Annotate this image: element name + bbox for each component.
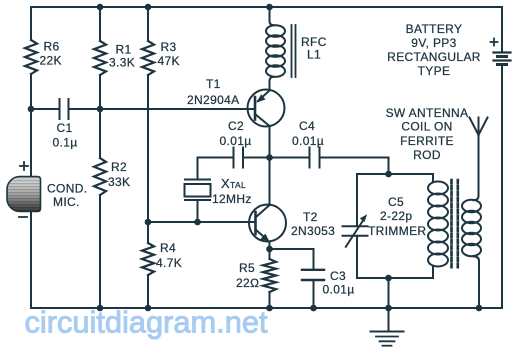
battery + sign: [491, 41, 498, 43]
svg-text:22Ω: 22Ω: [236, 276, 260, 290]
svg-text:TRIMMER: TRIMMER: [368, 224, 426, 238]
inductor L3 secondary coil: [462, 200, 481, 212]
wire R4 bottom lead: [147, 275, 149, 308]
wire tank right lower stub: [432, 266, 434, 278]
capacitor C4: [309, 148, 311, 168]
wire T2 collector up to C2/C4 node: [269, 158, 271, 206]
svg-text:FERRITE: FERRITE: [400, 134, 454, 148]
wire left rail R6 to mic: [30, 74, 32, 177]
svg-text:BATTERY: BATTERY: [406, 22, 463, 36]
svg-text:R6: R6: [44, 40, 60, 54]
wire C2 node down to crystal: [197, 158, 199, 180]
svg-text:C4: C4: [299, 119, 315, 133]
wire RFC bottom hook: [270, 77, 275, 90]
svg-text:12MHz: 12MHz: [212, 192, 252, 206]
wire mic node to C1: [31, 108, 59, 110]
svg-text:C3: C3: [330, 269, 346, 283]
wire left rail above R6: [30, 7, 32, 40]
junction node dots: [28, 4, 483, 312]
battery B1 plates: [494, 51, 511, 53]
wire crystal bottom lead: [197, 200, 199, 222]
crystal X1 top plate: [185, 179, 210, 181]
wire ground stem: [388, 308, 390, 331]
wire R1 bottom to C1 node and R2 top: [99, 75, 101, 158]
inductor RFC L1 coil: [266, 25, 285, 37]
wire R3 bottom to xtal-row node: [147, 75, 149, 243]
wire left rail mic to bottom: [30, 211, 32, 308]
transistor T2 emitter diagonal (NPN arrow out): [256, 230, 268, 240]
svg-text:22K: 22K: [40, 54, 62, 68]
wire secondary bottom to ground rail: [474, 256, 480, 308]
svg-text:4.7K: 4.7K: [156, 256, 182, 270]
svg-text:MIC.: MIC.: [53, 195, 80, 209]
svg-text:T2: T2: [303, 210, 318, 224]
wire C3 top lead: [313, 249, 315, 269]
wire R5 top lead: [269, 249, 271, 259]
wire RFC top lead: [270, 7, 275, 25]
resistor R5: [263, 259, 276, 292]
wire top supply rail: [31, 6, 502, 8]
svg-text:circuitdiagram.net: circuitdiagram.net: [25, 305, 268, 340]
ground symbol: [371, 331, 404, 333]
svg-text:COIL ON: COIL ON: [401, 120, 452, 134]
svg-text:R1: R1: [116, 43, 132, 57]
crystal X1 bottom plate: [185, 199, 210, 201]
wire R5 bottom lead: [269, 292, 271, 308]
svg-text:R3: R3: [161, 40, 177, 54]
inductor L2 primary coil: [428, 182, 448, 195]
resistor R4: [142, 243, 154, 275]
wire right rail upper (to battery +): [501, 7, 503, 51]
wire T1 collector down to C2/C4 node: [269, 126, 271, 158]
svg-text:C1: C1: [57, 121, 73, 135]
wire T2 base row: [148, 221, 256, 223]
antenna symbol: [470, 118, 479, 136]
wire T1 base wire: [100, 108, 254, 110]
svg-text:47K: 47K: [158, 54, 180, 68]
svg-text:0.01µ: 0.01µ: [323, 283, 355, 297]
svg-text:C2: C2: [228, 119, 244, 133]
wire R1 top lead: [99, 7, 101, 41]
wire tank left side lower: [356, 236, 358, 278]
capacitor C5 trimmer plates: [343, 225, 368, 227]
svg-text:R2: R2: [111, 160, 127, 174]
wire emitter node to C3: [270, 248, 314, 250]
wire C3 bottom lead: [313, 280, 315, 308]
wire C2 right lead to node: [243, 157, 270, 159]
resistor R2: [94, 158, 106, 195]
wire tank right upper stub: [432, 174, 434, 182]
capacitor C2: [233, 148, 235, 168]
svg-text:TYPE: TYPE: [418, 64, 451, 78]
svg-text:SW ANTENNA: SW ANTENNA: [386, 106, 469, 120]
wire tank top side: [357, 173, 433, 175]
transistor T1 base bar: [254, 97, 257, 120]
resistor R6: [25, 40, 37, 74]
svg-text:R5: R5: [239, 261, 255, 275]
svg-text:T1: T1: [206, 77, 221, 91]
wire tank left side upper: [356, 174, 358, 226]
inductor RFC L1 core bars: [291, 25, 293, 77]
wire T1 emitter to RFC: [269, 81, 271, 90]
svg-text:9V, PP3: 9V, PP3: [411, 36, 456, 50]
wire C1 to R1/R2 node: [69, 108, 101, 110]
svg-text:0.1µ: 0.1µ: [53, 136, 78, 150]
svg-text:R4: R4: [160, 241, 176, 255]
svg-text:C5: C5: [388, 195, 404, 209]
svg-text:0.01µ: 0.01µ: [220, 134, 252, 148]
svg-text:33K: 33K: [108, 175, 130, 189]
resistor R3: [142, 41, 154, 75]
wire C4 right lead to tank: [320, 158, 389, 175]
wire tank bottom node to ground rail: [388, 278, 390, 308]
crystal X1 body: [185, 184, 211, 197]
svg-text:0.01µ: 0.01µ: [292, 134, 324, 148]
svg-text:2-22p: 2-22p: [380, 209, 412, 223]
svg-text:COND.: COND.: [47, 182, 87, 196]
microphone MIC1 + sign: [20, 165, 28, 167]
capacitor C5 trimmer arrow: [346, 220, 363, 247]
wire R2 bottom lead: [99, 195, 101, 308]
svg-text:2N3053: 2N3053: [291, 224, 335, 238]
svg-text:2N2904A: 2N2904A: [187, 93, 240, 107]
svg-text:L1: L1: [307, 48, 321, 62]
transistor T1 emitter diagonal (PNP arrow to base): [258, 91, 270, 102]
svg-text:3.3K: 3.3K: [109, 56, 135, 70]
transistor T2 base bar: [254, 212, 257, 234]
microphone MIC1 - sign: [19, 216, 27, 218]
transistor T2 collector diagonal: [256, 205, 270, 218]
wire tank bottom side: [357, 277, 433, 279]
wire right rail lower (battery - to bottom rail): [501, 66, 503, 308]
transistor T1 collector diagonal: [255, 114, 270, 126]
transistor Q T1 circle: [248, 90, 285, 127]
wire bottom ground rail: [31, 307, 502, 309]
wire T2 emitter down to node: [269, 242, 271, 249]
resistor R1: [94, 41, 106, 75]
wire R3 top lead: [147, 7, 149, 41]
transistor T2 circle: [249, 205, 286, 242]
svg-text:ROD: ROD: [413, 148, 441, 162]
wire antenna stem to secondary top: [474, 135, 479, 200]
svg-text:RECTANGULAR: RECTANGULAR: [387, 50, 481, 64]
capacitor C1: [59, 99, 61, 119]
wire C4 left lead: [270, 157, 310, 159]
capacitor C3: [302, 269, 324, 271]
svg-text:XTAL: XTAL: [221, 176, 246, 191]
wire C2 left lead: [198, 157, 234, 159]
transformer core dashed lines: [450, 180, 453, 268]
